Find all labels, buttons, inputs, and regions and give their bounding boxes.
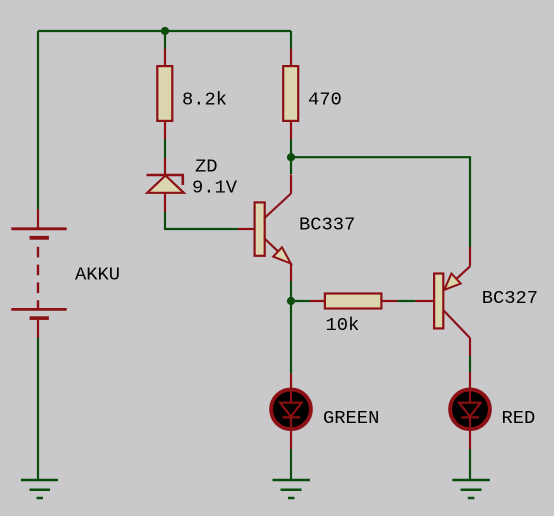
wire GREEN led to ground: [290, 449, 292, 479]
svg-text:ZD: ZD: [195, 156, 218, 178]
node junction dot at top rail / 8.2k: [161, 27, 169, 35]
svg-text:GREEN: GREEN: [323, 407, 379, 429]
wire battery positive column: [37, 31, 39, 210]
wire 470 column top: [290, 31, 292, 49]
led D3 RED: [450, 372, 490, 449]
svg-text:10k: 10k: [326, 314, 360, 336]
svg-text:470: 470: [308, 89, 342, 111]
wire RED led to ground: [469, 449, 471, 479]
resistor R2 470: [283, 49, 298, 140]
ground GND3 (right): [452, 480, 490, 498]
wire top rail from battery to 470 column: [38, 30, 291, 32]
transistor Q1 BC337 (NPN): [238, 175, 291, 282]
resistor R3 10k: [310, 294, 397, 309]
wire node to 10k: [291, 300, 310, 302]
ground GND2 (middle): [273, 480, 311, 498]
wire battery negative to ground: [37, 338, 39, 480]
svg-text:RED: RED: [502, 407, 536, 429]
diode D1 zener ZD 9.1V: [147, 158, 185, 212]
wire zener to BC337 base: [165, 212, 238, 229]
wire BC337 collector to node: [290, 157, 292, 174]
svg-text:BC327: BC327: [482, 287, 538, 309]
resistor R1 8.2k: [157, 49, 172, 140]
battery B1 AKKU: [11, 209, 66, 338]
svg-text:AKKU: AKKU: [75, 264, 120, 286]
wire BC327 collector to RED led: [469, 356, 471, 372]
wire 8.2k to zener: [164, 140, 166, 159]
transistor Q2 BC327 (PNP): [415, 247, 470, 356]
led D2 GREEN: [271, 373, 311, 449]
wire 470 bottom to node: [290, 140, 292, 158]
svg-text:8.2k: 8.2k: [182, 89, 227, 111]
svg-text:BC337: BC337: [299, 214, 355, 236]
wire node to BC327 emitter column: [291, 157, 470, 247]
wire 8.2k top stub: [164, 31, 166, 49]
svg-text:9.1V: 9.1V: [192, 177, 238, 199]
wire BC337 emitter down to GREEN led: [290, 281, 292, 373]
ground GND1 (left): [21, 480, 58, 498]
node junction dot BC337 emitter / 10k: [287, 297, 295, 305]
wire 10k to BC327 base: [397, 300, 415, 302]
node junction dot BC337 collector / 470 / BC327: [287, 153, 295, 161]
